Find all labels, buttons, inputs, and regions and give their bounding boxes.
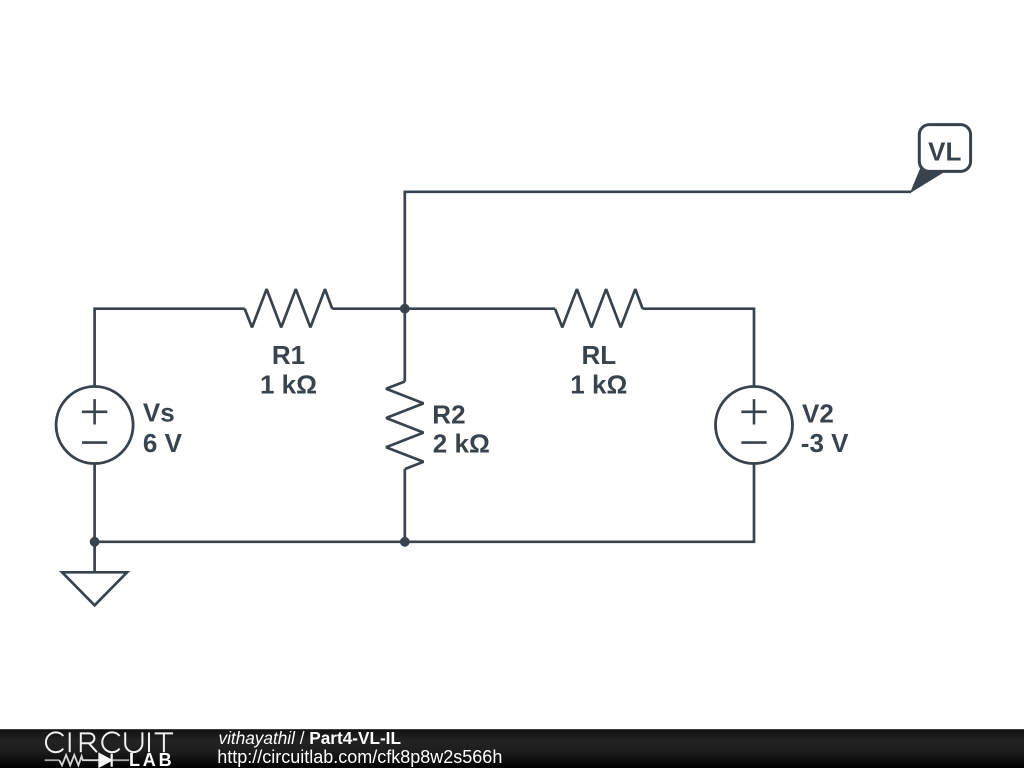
svg-text:6 V: 6 V: [143, 428, 183, 458]
svg-text:-3 V: -3 V: [801, 428, 849, 458]
svg-text:R1: R1: [272, 340, 305, 370]
svg-text:LAB: LAB: [129, 750, 174, 768]
junction bottom left: [90, 537, 100, 547]
voltage source V2 plus: [741, 399, 766, 424]
wire R1 to node A: [332, 307, 405, 310]
voltage source Vs circle: [56, 387, 133, 464]
wire node A to RL: [405, 307, 555, 310]
wire R2 to bottom rail: [403, 469, 406, 542]
resistor R2: [386, 382, 423, 470]
ground: [62, 572, 127, 605]
wire to ground: [93, 542, 96, 573]
node flag VL box: [919, 125, 970, 172]
svg-text:V2: V2: [802, 399, 834, 429]
svg-text:VL: VL: [928, 136, 961, 166]
footer bar: [0, 729, 1024, 768]
node flag VL pointer: [910, 168, 947, 194]
junction bottom center: [400, 537, 410, 547]
logo letter C2: [102, 732, 119, 752]
svg-text:1 kΩ: 1 kΩ: [570, 370, 627, 400]
voltage source V2 minus: [741, 441, 766, 444]
logo letter C: [46, 732, 63, 752]
logo resistor glyph: [59, 755, 99, 765]
svg-text:1 kΩ: 1 kΩ: [260, 370, 317, 400]
logo letter T: [155, 733, 173, 752]
resistor RL: [555, 289, 643, 327]
logo diode glyph: [99, 754, 111, 767]
wire Vs bottom: [93, 464, 96, 542]
svg-text:RL: RL: [581, 340, 616, 370]
logo lead wire left: [45, 759, 60, 761]
wire V2 bottom to bottom rail: [95, 464, 754, 542]
voltage source V2 circle: [716, 387, 793, 464]
wire node A to R2: [403, 309, 406, 382]
svg-text:vithayathil / Part4-VL-IL: vithayathil / Part4-VL-IL: [219, 728, 401, 748]
logo letter I2: [148, 732, 150, 752]
svg-text:2 kΩ: 2 kΩ: [433, 428, 490, 458]
wire RL to V2 top: [643, 309, 754, 387]
svg-text:R2: R2: [432, 399, 465, 429]
logo diode bar: [111, 754, 113, 767]
logo letter I: [69, 732, 71, 752]
logo letter U: [125, 732, 142, 752]
svg-text:Vs: Vs: [143, 398, 175, 428]
junction node A: [400, 304, 410, 314]
logo letter R: [81, 733, 97, 752]
resistor R1: [245, 289, 333, 327]
wire node A up to top rail: [405, 192, 911, 309]
svg-text:http://circuitlab.com/cfk8p8w2: http://circuitlab.com/cfk8p8w2s566h: [217, 747, 502, 767]
voltage source Vs plus: [82, 399, 107, 424]
wire Vs top to R1: [95, 309, 245, 387]
voltage source Vs minus: [82, 441, 107, 444]
logo lead wire right: [113, 759, 129, 761]
